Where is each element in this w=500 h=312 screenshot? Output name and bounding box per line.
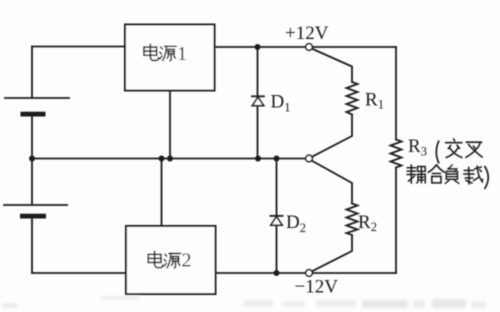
svg-text:R2: R2: [358, 212, 377, 234]
svg-text:−12V: −12V: [295, 277, 339, 298]
svg-text:1: 1: [177, 43, 187, 65]
svg-text:D2: D2: [286, 212, 306, 235]
svg-text:D1: D1: [271, 92, 291, 115]
svg-text:R3: R3: [408, 136, 427, 159]
svg-text:R1: R1: [365, 90, 384, 112]
svg-text:+12V: +12V: [285, 23, 329, 44]
svg-text:2: 2: [182, 250, 192, 272]
